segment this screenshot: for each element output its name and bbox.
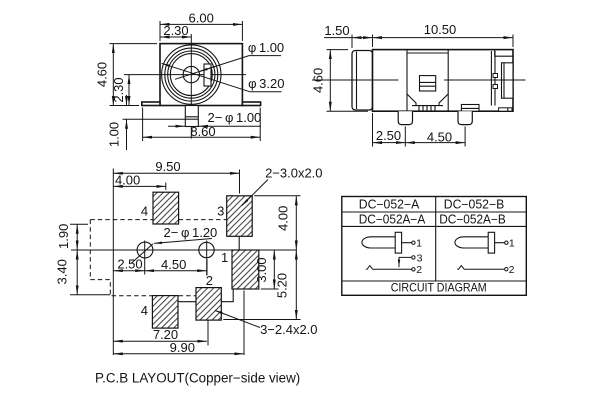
svg-text:10.50: 10.50 xyxy=(424,22,457,37)
dim 2.50 pcb xyxy=(144,260,146,275)
svg-text:2−3.0x2.0: 2−3.0x2.0 xyxy=(265,166,322,181)
svg-text:2.50: 2.50 xyxy=(376,128,401,143)
svg-text:P.C.B LAYOUT(Copper−side view): P.C.B LAYOUT(Copper−side view) xyxy=(95,371,300,386)
right wall tab lower xyxy=(493,85,498,89)
dashed body step xyxy=(90,280,152,296)
table row line 2 xyxy=(342,225,527,227)
dim 6.00 xyxy=(160,23,242,25)
right circuit: pin 1 lead xyxy=(495,242,505,244)
window line 2 xyxy=(420,85,436,87)
dashed body outline top xyxy=(90,219,153,221)
outer barrel circle xyxy=(162,45,221,104)
dim 2.50 side xyxy=(373,142,406,144)
dim 9.50 xyxy=(239,170,241,194)
dim 4.00 right xyxy=(254,195,300,197)
right circuit: barrel symbol xyxy=(455,237,488,248)
right wall tab upper xyxy=(493,74,498,78)
right circuit: pin 1 terminal xyxy=(505,241,508,244)
left circuit: pin 1 terminal xyxy=(412,241,415,244)
svg-text:4: 4 xyxy=(141,203,148,218)
contact window xyxy=(420,76,436,91)
dim 1.00 left (outside arrows) xyxy=(126,95,128,106)
barrel ring 2 xyxy=(165,48,218,101)
dashed body outline left xyxy=(89,220,91,280)
dim 4.50 pcb xyxy=(145,270,207,272)
dim 6.00 extension lines xyxy=(159,21,161,41)
dim 4.60 side extensions xyxy=(327,49,349,51)
right circuit: pin plate xyxy=(488,232,494,253)
left circuit: pin 2 line with spring xyxy=(366,266,412,270)
bottom right plate xyxy=(499,108,512,111)
svg-text:2− φ 1.20: 2− φ 1.20 xyxy=(164,225,218,240)
trace pad4b to pad2 xyxy=(178,301,196,303)
table outer frame xyxy=(342,197,527,296)
pad 4 top xyxy=(153,192,179,224)
svg-text:2: 2 xyxy=(416,264,422,276)
horizontal center line xyxy=(124,74,246,76)
dim 2.30 left xyxy=(128,75,130,106)
right circuit: pin 2 terminal xyxy=(505,268,508,271)
svg-text:2: 2 xyxy=(206,273,213,288)
svg-text:4.60: 4.60 xyxy=(95,62,110,87)
svg-text:3: 3 xyxy=(217,203,224,218)
svg-text:4.50: 4.50 xyxy=(427,130,452,145)
svg-text:3: 3 xyxy=(417,252,423,264)
svg-text:DC−052A−A: DC−052A−A xyxy=(359,212,426,226)
dim 8.60 extension lines xyxy=(142,108,144,142)
svg-text:3.00: 3.00 xyxy=(254,257,269,282)
svg-text:9.50: 9.50 xyxy=(155,159,180,174)
trace pad3 to pad1 xyxy=(238,236,240,250)
dim 7.20 xyxy=(113,340,207,342)
svg-text:5.20: 5.20 xyxy=(275,273,290,298)
barrel ring 3 xyxy=(168,51,215,98)
dim 1.50 xyxy=(324,37,352,39)
svg-text:1.90: 1.90 xyxy=(56,224,71,249)
dim 2.30 top xyxy=(160,36,191,38)
left chamfer xyxy=(407,94,416,106)
vertical center line xyxy=(190,34,192,139)
svg-text:1: 1 xyxy=(221,250,228,265)
top right notch xyxy=(495,50,513,57)
hole B xyxy=(199,242,214,257)
right chamfer xyxy=(439,94,448,106)
window line 1 xyxy=(420,81,436,83)
dashed bottom segment xyxy=(179,295,196,297)
barrel bushing (left protrusion) xyxy=(352,51,373,111)
dim 8.60 xyxy=(143,136,261,138)
center pin hole xyxy=(183,66,199,82)
left circuit: barrel symbol xyxy=(362,237,395,248)
table column divider xyxy=(435,197,437,282)
svg-text:CIRCUIT DIAGRAM: CIRCUIT DIAGRAM xyxy=(391,281,487,295)
hole B crosshair xyxy=(206,241,208,276)
svg-text:4.60: 4.60 xyxy=(310,68,325,93)
dim 4.50 side xyxy=(405,142,465,144)
bottom center pin xyxy=(185,106,198,127)
svg-text:1: 1 xyxy=(416,238,422,250)
svg-text:3.40: 3.40 xyxy=(55,259,70,284)
dim 3.00 xyxy=(261,288,279,290)
svg-text:DC−052−B: DC−052−B xyxy=(444,197,505,211)
hole A xyxy=(137,242,153,258)
dim 10.50 xyxy=(373,37,514,39)
svg-text:2.50: 2.50 xyxy=(117,257,142,272)
svg-text:2.30: 2.30 xyxy=(111,77,126,102)
dim 1.90 xyxy=(70,223,88,225)
right inner block edge xyxy=(503,63,505,98)
left mounting foot xyxy=(142,102,160,106)
svg-text:4.00: 4.00 xyxy=(276,206,291,231)
dim 3.40 xyxy=(70,294,110,296)
svg-text:1.00: 1.00 xyxy=(107,122,122,147)
left circuit: pin 2 terminal xyxy=(412,268,415,271)
svg-text:φ 1.00: φ 1.00 xyxy=(248,40,284,55)
latch inner line xyxy=(461,107,479,109)
side view body xyxy=(373,50,514,112)
section line right xyxy=(447,50,449,112)
table row line 1 xyxy=(342,211,527,213)
front view body square xyxy=(160,44,242,106)
dim 4.60 left xyxy=(112,44,114,106)
pad 2 xyxy=(196,288,221,321)
svg-text:2.30: 2.30 xyxy=(163,23,188,38)
axis line right xyxy=(444,79,526,81)
dim 4.60 side xyxy=(329,50,331,112)
svg-text:4.50: 4.50 xyxy=(161,257,186,272)
left circuit: pin 1 lead xyxy=(402,242,412,244)
svg-text:9.90: 9.90 xyxy=(170,340,195,355)
bottom right plate line xyxy=(507,108,509,111)
trace pad2 to pad1 xyxy=(221,289,233,301)
svg-text:4.00: 4.00 xyxy=(115,172,140,187)
svg-text:1: 1 xyxy=(509,238,515,250)
right circuit: pin 2 line with spring xyxy=(457,266,504,270)
svg-text:2: 2 xyxy=(509,264,515,276)
barrel ring 4 xyxy=(170,54,212,96)
left circuit: switch arm xyxy=(399,257,412,261)
left circuit: pin plate xyxy=(395,232,401,253)
table row line 3 xyxy=(342,280,527,282)
bottom edge line xyxy=(142,105,261,107)
contact slot rectangle xyxy=(204,64,211,86)
pin 1 (side) xyxy=(398,111,412,124)
right mounting foot xyxy=(242,102,260,106)
dim 4.00 top xyxy=(165,183,167,191)
right inner wall 2 xyxy=(494,51,496,106)
pad 4 bottom xyxy=(152,296,178,329)
left circuit: pin 3 terminal xyxy=(412,256,415,259)
svg-text:2− φ 1.00: 2− φ 1.00 xyxy=(208,110,262,125)
horizontal center line xyxy=(71,249,297,251)
right inner block xyxy=(502,63,514,98)
svg-text:3−2.4x2.0: 3−2.4x2.0 xyxy=(260,322,317,337)
pin bottom extension xyxy=(123,118,187,120)
axis line left xyxy=(312,79,399,81)
right inner wall 1 xyxy=(490,51,492,106)
svg-text:1.50: 1.50 xyxy=(324,23,349,38)
pad 1 xyxy=(232,250,259,289)
left reference extension line xyxy=(112,169,114,356)
pin 2 (side) xyxy=(458,111,472,124)
comb top line xyxy=(412,105,443,107)
section top inset line xyxy=(407,52,448,54)
dim 2.50 side extensions xyxy=(372,113,374,147)
section line left xyxy=(406,50,408,112)
comb teeth xyxy=(418,106,420,111)
dim 9.90 xyxy=(243,291,245,356)
svg-text:φ 3.20: φ 3.20 xyxy=(248,76,284,91)
dim 4.60 extension lines xyxy=(110,43,158,45)
svg-text:DC−052A−B: DC−052A−B xyxy=(439,212,506,226)
bushing rim line xyxy=(356,52,358,110)
dim 5.20 xyxy=(223,319,300,321)
latch plate xyxy=(461,105,479,112)
dim 1.50 extensions xyxy=(351,35,353,49)
pin collar line xyxy=(185,116,198,118)
pad 3 xyxy=(227,196,253,237)
svg-text:6.00: 6.00 xyxy=(189,11,214,26)
hole A crosshair xyxy=(144,241,146,260)
svg-text:4: 4 xyxy=(141,303,148,318)
svg-text:DC−052−A: DC−052−A xyxy=(359,197,420,211)
